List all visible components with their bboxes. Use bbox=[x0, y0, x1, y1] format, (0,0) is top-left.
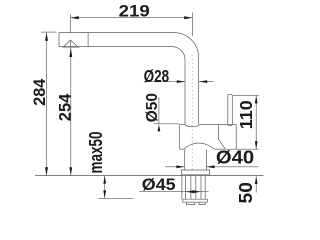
dim 254 arrow top bbox=[69, 48, 72, 57]
base right edge bbox=[205, 149, 207, 170]
dim O50 ext bbox=[154, 123, 180, 125]
shank rod right bbox=[195, 176, 197, 200]
dim 110 line bbox=[255, 96, 257, 150]
dim O45 arrow left bbox=[186, 190, 194, 193]
dim 219 ext right bbox=[191, 13, 193, 36]
body bottom left bbox=[179, 148, 183, 150]
clamp nut left bbox=[186, 202, 194, 204]
base left edge bbox=[184, 149, 186, 170]
dim O45 underline bbox=[139, 191, 209, 193]
dim 219 arrow right bbox=[184, 16, 192, 19]
dim max50 arrow top bbox=[103, 176, 106, 184]
dim O50 stem bbox=[158, 97, 160, 124]
body left edge bbox=[178, 125, 180, 150]
svg-text:Ø28: Ø28 bbox=[144, 66, 170, 86]
dim 110 arrow top bbox=[255, 96, 258, 104]
dim max50 arrow bottom bbox=[103, 190, 106, 198]
svg-text:max50: max50 bbox=[86, 132, 106, 174]
base flange bbox=[181, 170, 209, 175]
shank tube right bbox=[200, 176, 202, 200]
shank rod left bbox=[190, 176, 192, 200]
lever boss right edge bbox=[235, 125, 237, 150]
dim O50 arrow bbox=[158, 124, 161, 131]
countertop line bbox=[35, 175, 263, 177]
spout divider bbox=[87, 33, 89, 47]
dim O40 underline right bbox=[206, 166, 258, 168]
dim 110 top tick bbox=[233, 95, 259, 97]
svg-text:Ø45: Ø45 bbox=[142, 175, 176, 194]
dim O28 line left bbox=[144, 81, 185, 83]
dim 219 arrow left bbox=[71, 16, 79, 19]
dim 50 arrow bbox=[255, 176, 258, 184]
dim O40 tail left bbox=[165, 166, 185, 168]
dim O40 arrow right bbox=[206, 165, 214, 168]
svg-text:110: 110 bbox=[236, 100, 256, 129]
dim 284 top tick bbox=[41, 31, 57, 33]
spout end cap bbox=[58, 33, 60, 47]
dim 219 line bbox=[71, 17, 193, 19]
centerline bbox=[191, 55, 193, 172]
lever base arc bbox=[228, 124, 233, 127]
svg-text:Ø40: Ø40 bbox=[216, 148, 254, 168]
body bottom dome bbox=[184, 143, 215, 149]
body top edge bbox=[179, 125, 236, 127]
dim 110 arrow bottom bbox=[255, 141, 258, 149]
dim 284 arrow top bbox=[45, 33, 48, 41]
dim 284 arrow bottom bbox=[45, 167, 48, 175]
aerator base line bbox=[62, 46, 80, 48]
svg-text:284: 284 bbox=[31, 79, 49, 106]
body bottom right bbox=[215, 148, 225, 150]
dim O28 line right bbox=[199, 81, 214, 83]
dim O40 arrow left bbox=[176, 165, 184, 168]
shank tube left bbox=[185, 176, 187, 200]
dim O28 arrow right bbox=[199, 80, 207, 83]
dim 254 line bbox=[70, 48, 72, 176]
dim 50 line bbox=[255, 176, 257, 192]
svg-text:219: 219 bbox=[119, 3, 150, 21]
boss chamfer diagonal bbox=[219, 140, 226, 149]
aerator center line bbox=[70, 40, 72, 47]
lever handle bbox=[228, 94, 233, 125]
aerator triangle bbox=[63, 40, 78, 47]
spout outer outline bbox=[59, 33, 199, 125]
dim 284 line bbox=[46, 33, 48, 176]
dim O28 arrow left bbox=[177, 80, 185, 83]
clamp nut right bbox=[199, 202, 205, 204]
dim max50 line bbox=[104, 176, 106, 198]
dim 110 bottom ref bbox=[225, 148, 259, 150]
svg-text:Ø50: Ø50 bbox=[144, 93, 161, 123]
svg-text:50: 50 bbox=[236, 182, 256, 203]
body right edge bbox=[218, 125, 220, 140]
shank outer left bbox=[181, 175, 183, 199]
shank outer right bbox=[204, 175, 206, 199]
clamp plate bbox=[183, 199, 208, 202]
dim max50 bottom ref bbox=[98, 197, 133, 199]
dim 254 arrow bottom bbox=[69, 167, 72, 175]
svg-text:254: 254 bbox=[56, 94, 74, 122]
dim 219 ext left bbox=[70, 14, 72, 32]
spout inner outline bbox=[59, 47, 185, 125]
dim O45 arrow right bbox=[193, 190, 201, 193]
